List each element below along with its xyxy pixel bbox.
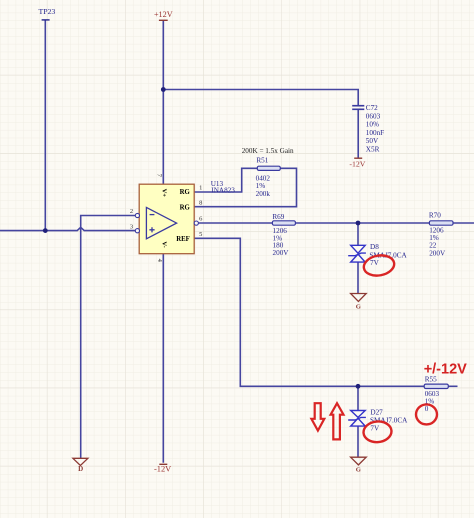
svg-text:1: 1 xyxy=(199,184,202,191)
svg-text:-12V: -12V xyxy=(154,465,171,474)
svg-text:RG: RG xyxy=(180,189,191,196)
svg-text:V+: V+ xyxy=(161,189,168,198)
svg-text:5: 5 xyxy=(199,231,202,238)
svg-text:-12V: -12V xyxy=(349,159,365,168)
svg-text:REF: REF xyxy=(176,236,190,243)
svg-text:0402: 0402 xyxy=(256,174,271,182)
svg-text:22: 22 xyxy=(429,242,437,250)
svg-text:X5R: X5R xyxy=(366,146,380,154)
svg-text:R69: R69 xyxy=(272,213,284,221)
svg-text:2: 2 xyxy=(130,208,133,215)
svg-text:+12V: +12V xyxy=(154,10,173,19)
svg-text:50V: 50V xyxy=(366,137,379,145)
svg-text:TP23: TP23 xyxy=(38,7,55,16)
svg-text:+/-12V: +/-12V xyxy=(424,362,467,378)
svg-text:R70: R70 xyxy=(429,211,441,219)
svg-text:R51: R51 xyxy=(256,156,268,164)
svg-text:D8: D8 xyxy=(370,243,379,251)
svg-text:V-: V- xyxy=(161,241,168,247)
svg-text:10%: 10% xyxy=(366,121,379,129)
svg-text:INA823: INA823 xyxy=(211,187,235,195)
svg-text:100nF: 100nF xyxy=(366,129,384,137)
svg-text:200V: 200V xyxy=(429,250,446,258)
svg-text:RG: RG xyxy=(180,204,191,211)
svg-text:D27: D27 xyxy=(370,409,383,417)
svg-text:1%: 1% xyxy=(429,234,439,242)
svg-text:200V: 200V xyxy=(273,249,290,257)
svg-text:0603: 0603 xyxy=(366,112,381,120)
svg-text:8: 8 xyxy=(199,200,202,207)
svg-text:7V: 7V xyxy=(370,259,380,267)
svg-text:200k: 200k xyxy=(256,190,271,198)
svg-text:C72: C72 xyxy=(366,104,378,112)
svg-text:1%: 1% xyxy=(256,182,266,190)
svg-text:3: 3 xyxy=(130,223,133,230)
svg-text:200K = 1.5x Gain: 200K = 1.5x Gain xyxy=(242,147,294,155)
svg-text:G: G xyxy=(356,466,361,473)
svg-text:7V: 7V xyxy=(370,424,380,432)
svg-text:G: G xyxy=(356,303,361,310)
svg-text:0: 0 xyxy=(425,405,429,413)
svg-text:D: D xyxy=(78,465,83,473)
